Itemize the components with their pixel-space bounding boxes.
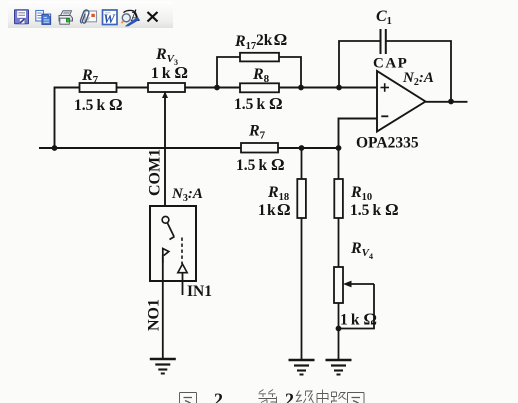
label RV3 designator [155,46,178,67]
svg-text:RV4: RV4 [350,240,373,261]
svg-text:1.5 k Ω: 1.5 k Ω [74,95,123,114]
caption char dian (electric) [317,390,328,403]
caption char di (bamboo tops) [259,390,277,403]
label R10 value 1.5 kOhm [350,200,399,219]
toolbar icon: copy (two pages) [36,11,51,25]
wire: between R7 and RV3 [117,87,149,89]
svg-text:COM1: COM1 [147,149,164,196]
node: junction at R17 branch right [298,85,304,91]
label RV3 value 1 kOhm [151,63,188,82]
potentiometer RV4 body [334,267,343,303]
potentiometer RV4 wiper arrow and strap [339,281,375,329]
relay switch blade [167,223,174,240]
toolbar icon: print (printer) [59,11,73,24]
node: junction at R18 [299,145,305,151]
svg-text:NO1: NO1 [146,299,163,331]
svg-text:1.5 k Ω: 1.5 k Ω [350,200,399,219]
node: output junction dot [448,99,454,105]
caption: figure title (top of CJK glyphs, clipped at page bottom) [180,393,197,403]
label R17 designator and value 2 kOhm [234,30,287,52]
label R10 designator [350,184,372,203]
toolbar icon: save (floppy disk) [15,10,29,24]
svg-text:2k Ω: 2k Ω [256,30,287,49]
svg-text:1 k Ω: 1 k Ω [258,200,291,219]
caption char tu (figure, last) [348,393,365,403]
label RV4 value 1 kOhm [340,310,377,329]
svg-text:R7: R7 [81,67,99,86]
toolbar icon: close (X) [148,12,158,22]
resistor R10 [334,179,343,218]
svg-text:W: W [103,11,116,26]
ground (below R18) [289,360,315,375]
label CAP [373,56,408,72]
svg-text:N3:A: N3:A [171,186,203,204]
wire: top net left corner vertical [55,88,80,149]
wire: second net horizontal (inverting input net) [39,147,241,149]
resistor R7 (second, middle) [241,143,278,153]
resistor R17 [240,53,279,62]
potentiometer RV3 wiper arrow [162,92,168,99]
svg-text:2: 2 [214,390,223,403]
wire: COM1 vertical from RV3 wiper to relay [164,98,166,217]
node: junction at R10 / inverting riser [336,145,342,151]
relay N3:A box [150,206,196,281]
label R7 (second) value 1.5 kOhm [236,155,285,174]
wire: R8 to op-amp + input [279,87,377,89]
label OPA2335 [356,135,419,152]
relay coil triangle [178,264,187,273]
svg-text:N2:A: N2:A [402,70,434,88]
op-amp U1 N2:A triangle [377,71,426,132]
relay common contact circle [162,216,169,223]
node: junction dot at left vertical / lower net [52,145,58,151]
label R18 value 1 kOhm [258,200,291,219]
wire: R18 bottom lead to ground [301,218,303,360]
label R7 designator [81,67,99,86]
wire: R17 parallel branch (up-over-down) [217,57,301,88]
wire: RV3 to R8 (through junctions) [185,87,240,89]
wire: R7 second to R10 branch [278,147,339,149]
toolbar icon: find (magnifier, A, pen) [122,9,141,27]
label R18 designator [267,184,289,203]
label R8 value 1.5 kOhm [234,94,283,113]
svg-text:R10: R10 [350,184,372,203]
op-amp + pin [381,83,390,92]
toolbar icon: word document (W) [103,10,118,26]
caption digit 2 (second) [285,390,294,403]
resistor R18 [297,179,306,218]
caption char lu (road) [331,392,347,403]
capacitor C1 plates [381,29,386,54]
wire: NO1 lead to ground [162,255,164,359]
label R8 designator [252,66,270,85]
resistor R8 (in line) [240,83,279,92]
ground (below NO1) [150,359,176,374]
tu (figure) first char box top [180,393,197,403]
caption char ji (grade) [297,391,314,403]
svg-text:IN1: IN1 [187,283,212,300]
svg-text:1 k Ω: 1 k Ω [151,63,188,82]
label N2:A [402,70,434,88]
relay actuator dashed line [181,238,183,265]
label R7 value 1.5 kOhm [74,95,123,114]
svg-text:1.5 k Ω: 1.5 k Ω [234,94,283,113]
svg-text:1.5 k Ω: 1.5 k Ω [236,155,285,174]
node: junction dot RV4 strap to ground wire [336,326,342,332]
svg-text:OPA2335: OPA2335 [356,135,419,152]
node: junction at R17 branch left [214,85,220,91]
potentiometer RV3 body [148,83,185,92]
wire: RV4 bottom to ground [338,303,340,360]
wire: riser to op-amp inverting input [339,119,378,149]
wire: C1 feedback loop [339,41,451,102]
label R7 (second) designator [248,123,266,142]
toolbar icon: attach (paperclip and envelope) [80,10,96,23]
caption digit 2 [214,390,223,403]
svg-text:2: 2 [285,390,294,403]
label RV4 designator [350,240,373,261]
svg-text:1 k Ω: 1 k Ω [340,310,377,329]
label IN1 [187,283,212,300]
toolbar background strip [8,1,173,28]
wire: R10 top lead [338,148,340,179]
wire: R18 top lead [301,148,303,179]
node: junction at C1 feedback left [336,85,342,91]
svg-text:R7: R7 [248,123,266,142]
ground (below RV4) [326,360,352,375]
wire: R10 to RV4 [338,218,340,267]
label NO1 (rotated) [146,299,163,331]
label C1 designator [376,8,392,27]
svg-text:C1: C1 [376,8,392,27]
op-amp - pin [381,115,388,117]
resistor R7 (first stage, top left) [80,83,117,92]
relay NO contact flag [163,249,169,264]
wire: IN1 lead [182,273,184,295]
label COM1 (rotated) [147,149,164,196]
wire: op-amp output [426,101,468,103]
svg-text:R8: R8 [252,66,270,85]
svg-text:R17: R17 [234,33,256,52]
label N3:A [171,186,203,204]
